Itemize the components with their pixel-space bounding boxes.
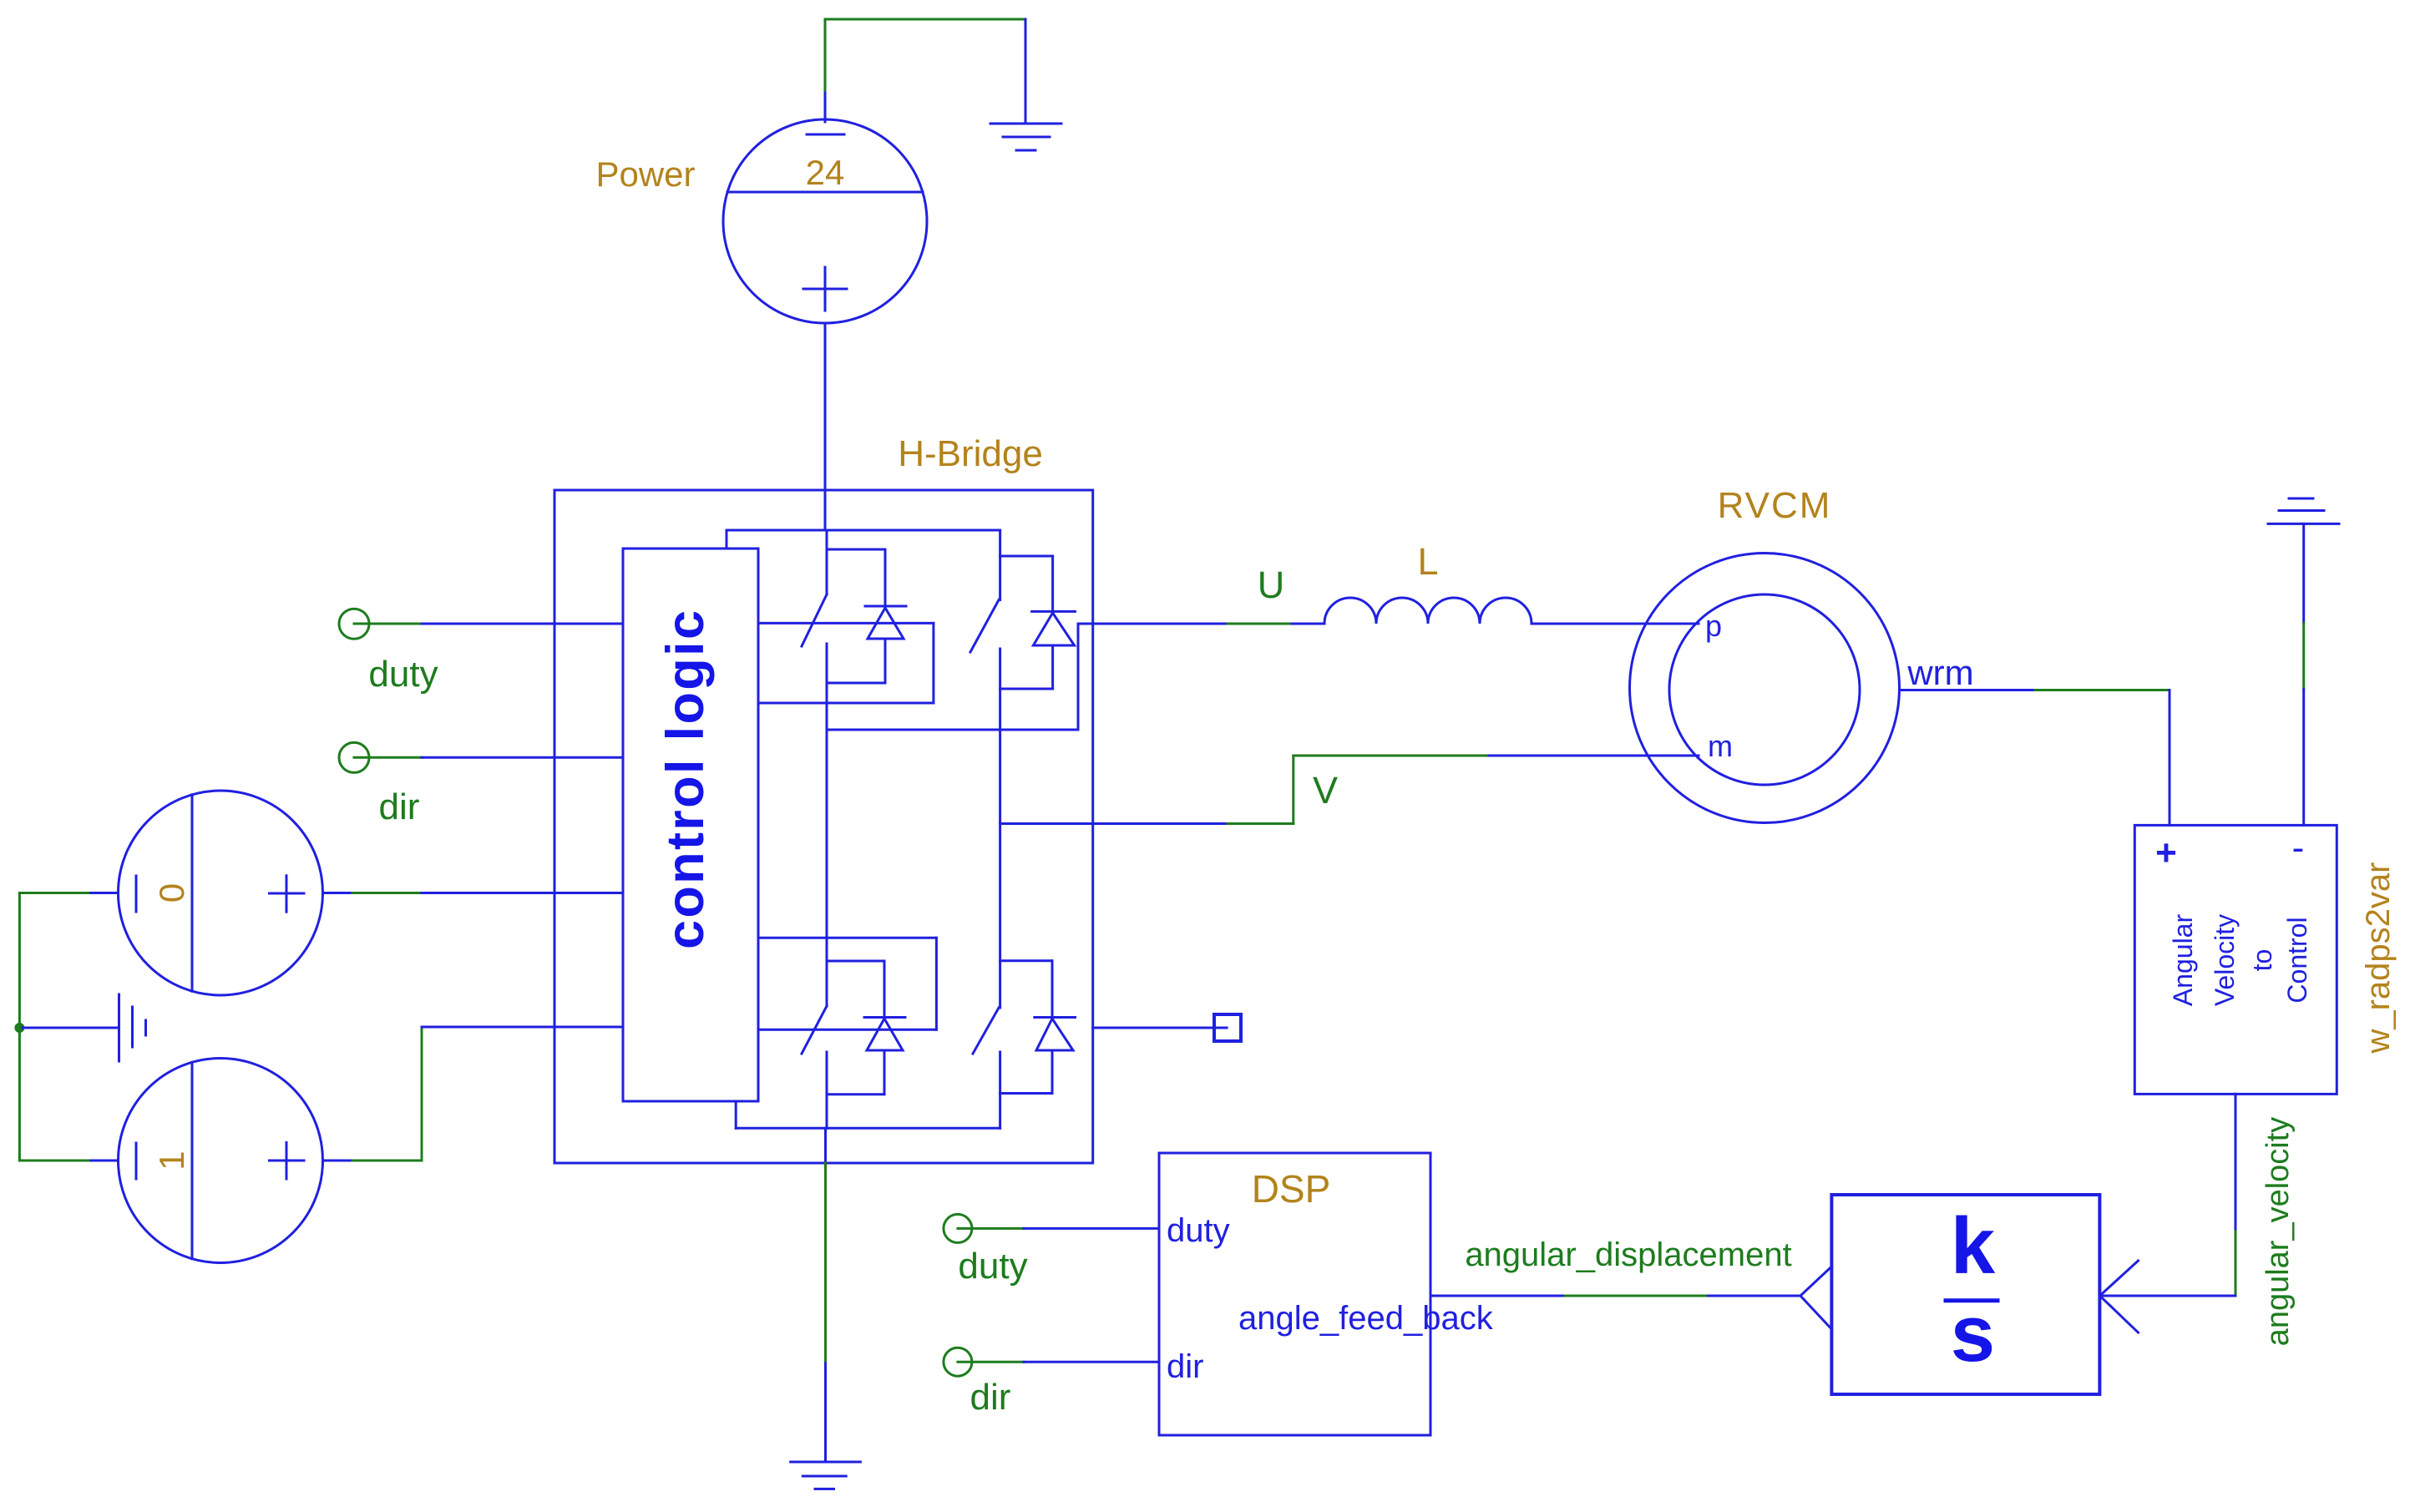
voltage source V0 [119, 791, 323, 995]
control logic box [623, 549, 758, 1101]
svg-text:duty: duty [958, 1246, 1027, 1287]
svg-text:p: p [1705, 609, 1722, 643]
fraction bar [1946, 1298, 1997, 1302]
arrow k/s input (right edge) [2100, 1261, 2139, 1332]
block k/s integrator [1831, 1195, 2099, 1394]
svg-text:U: U [1258, 564, 1285, 606]
inductor L [1324, 598, 1532, 624]
wire duty net [354, 623, 623, 625]
wire net U [1078, 623, 1324, 625]
svg-text:control logic: control logic [656, 610, 715, 949]
svg-text:Power: Power [595, 154, 695, 194]
wire S2 output / right leg midpoint column [999, 689, 1001, 824]
svg-text:dir: dir [1167, 1348, 1203, 1385]
svg-text:DSP: DSP [1252, 1167, 1331, 1211]
diode D2 [1000, 556, 1076, 689]
wire angular_displacement net [1430, 1295, 1800, 1297]
wire duty to DSP [958, 1227, 1159, 1230]
ground (bottom) [791, 1462, 861, 1489]
port dir (left) [339, 742, 369, 772]
svg-text:angle_feed_back: angle_feed_back [1238, 1300, 1494, 1337]
svg-text:RVCM: RVCM [1718, 485, 1832, 526]
wire angular_velocity net [2100, 1094, 2236, 1296]
H-Bridge outer box [554, 490, 1093, 1163]
switch S4 (bottom-right) [973, 824, 1000, 1094]
wire L to motor p [1532, 623, 1699, 625]
wire power plus lead down into H-bridge [824, 323, 827, 530]
svg-text:dir: dir [970, 1377, 1011, 1418]
wire top leg rail [727, 530, 1000, 549]
block DSP [1159, 1153, 1430, 1435]
wire V0 leads [89, 892, 352, 894]
voltage source V1 [119, 1059, 323, 1263]
svg-text:24: 24 [806, 153, 845, 192]
wire dir net [354, 756, 623, 759]
svg-text:k: k [1951, 1201, 1996, 1291]
wire S3 output [826, 1095, 828, 1129]
svg-text:+: + [2155, 832, 2177, 873]
wire net 0 to control logic [352, 892, 623, 894]
svg-text:duty: duty [1167, 1212, 1230, 1249]
svg-text:duty: duty [368, 654, 438, 695]
svg-text:wrm: wrm [1906, 653, 1973, 692]
wire S3/S4 gate loop [758, 938, 936, 1029]
svg-text:angular_displacement: angular_displacement [1465, 1236, 1791, 1273]
port dir (DSP input) [944, 1348, 972, 1376]
svg-text:angular_velocity: angular_velocity [2261, 1117, 2296, 1347]
wire wrm net [1900, 690, 2170, 826]
svg-text:L: L [1417, 540, 1438, 583]
ground (top right, inverted) [2268, 498, 2339, 523]
label Angular Velocity to Control (rotated lines) [2168, 914, 2312, 1007]
svg-text:m: m [1708, 729, 1733, 763]
ground (top, near power) [990, 124, 1061, 150]
svg-text:Control: Control [2282, 917, 2312, 1003]
wire S1 output / left leg midpoint column [826, 683, 828, 1006]
wire V1 leads [89, 1160, 352, 1162]
switch S1 (top-left) [802, 530, 827, 683]
svg-text:1: 1 [152, 1150, 191, 1170]
motor RVCM [1630, 554, 1900, 823]
arrow k/s output (left edge) [1800, 1267, 1831, 1329]
junction dot [14, 1023, 24, 1033]
port duty (DSP input) [944, 1214, 972, 1242]
wire S1 gate loop [758, 623, 934, 703]
block Angular Velocity to Control [2134, 825, 2337, 1094]
svg-text:H-Bridge: H-Bridge [898, 433, 1043, 474]
wire bottom rail inside bridge [736, 1101, 1000, 1163]
wire dir to DSP [958, 1361, 1159, 1363]
terminal square pad [1214, 1014, 1241, 1041]
wire U tap inside bridge [827, 624, 1078, 730]
svg-text:Angular: Angular [2168, 914, 2198, 1007]
wire ground stem (left sources) [23, 1027, 119, 1029]
svg-text:-: - [2292, 827, 2305, 868]
svg-text:V: V [1313, 769, 1338, 812]
svg-text:to: to [2247, 949, 2277, 972]
wire net from power minus to ground (green) [825, 19, 1025, 90]
wire S4 output [999, 1094, 1001, 1129]
svg-text:Velocity: Velocity [2210, 914, 2240, 1006]
diode D1 [827, 549, 906, 683]
diode D4 [1000, 961, 1076, 1094]
wire green elbow joining V0 and V1 minus terminals [19, 893, 88, 1161]
ground (left, rotated) [119, 994, 146, 1061]
diode D3 [827, 961, 905, 1095]
switch S2 (top-right) [970, 530, 1000, 689]
svg-text:w_radps2var: w_radps2var [2360, 862, 2397, 1054]
wire ground to AV minus pin [2302, 523, 2305, 825]
wire terminal stub right of bridge [1093, 1027, 1227, 1029]
switch S3 (bottom-left) [802, 1006, 827, 1095]
port duty (top-left) [339, 609, 369, 639]
svg-text:0: 0 [152, 883, 191, 903]
voltage source Power 24V [723, 119, 927, 323]
wire net V [1000, 756, 1699, 824]
wire power top lead [824, 90, 827, 122]
wire bottom ground stem [824, 1163, 827, 1462]
svg-text:s: s [1951, 1289, 1995, 1378]
svg-text:dir: dir [379, 786, 420, 827]
wire ground lead top right of power [1025, 19, 1027, 124]
wire net 1 to control logic [352, 1027, 623, 1161]
